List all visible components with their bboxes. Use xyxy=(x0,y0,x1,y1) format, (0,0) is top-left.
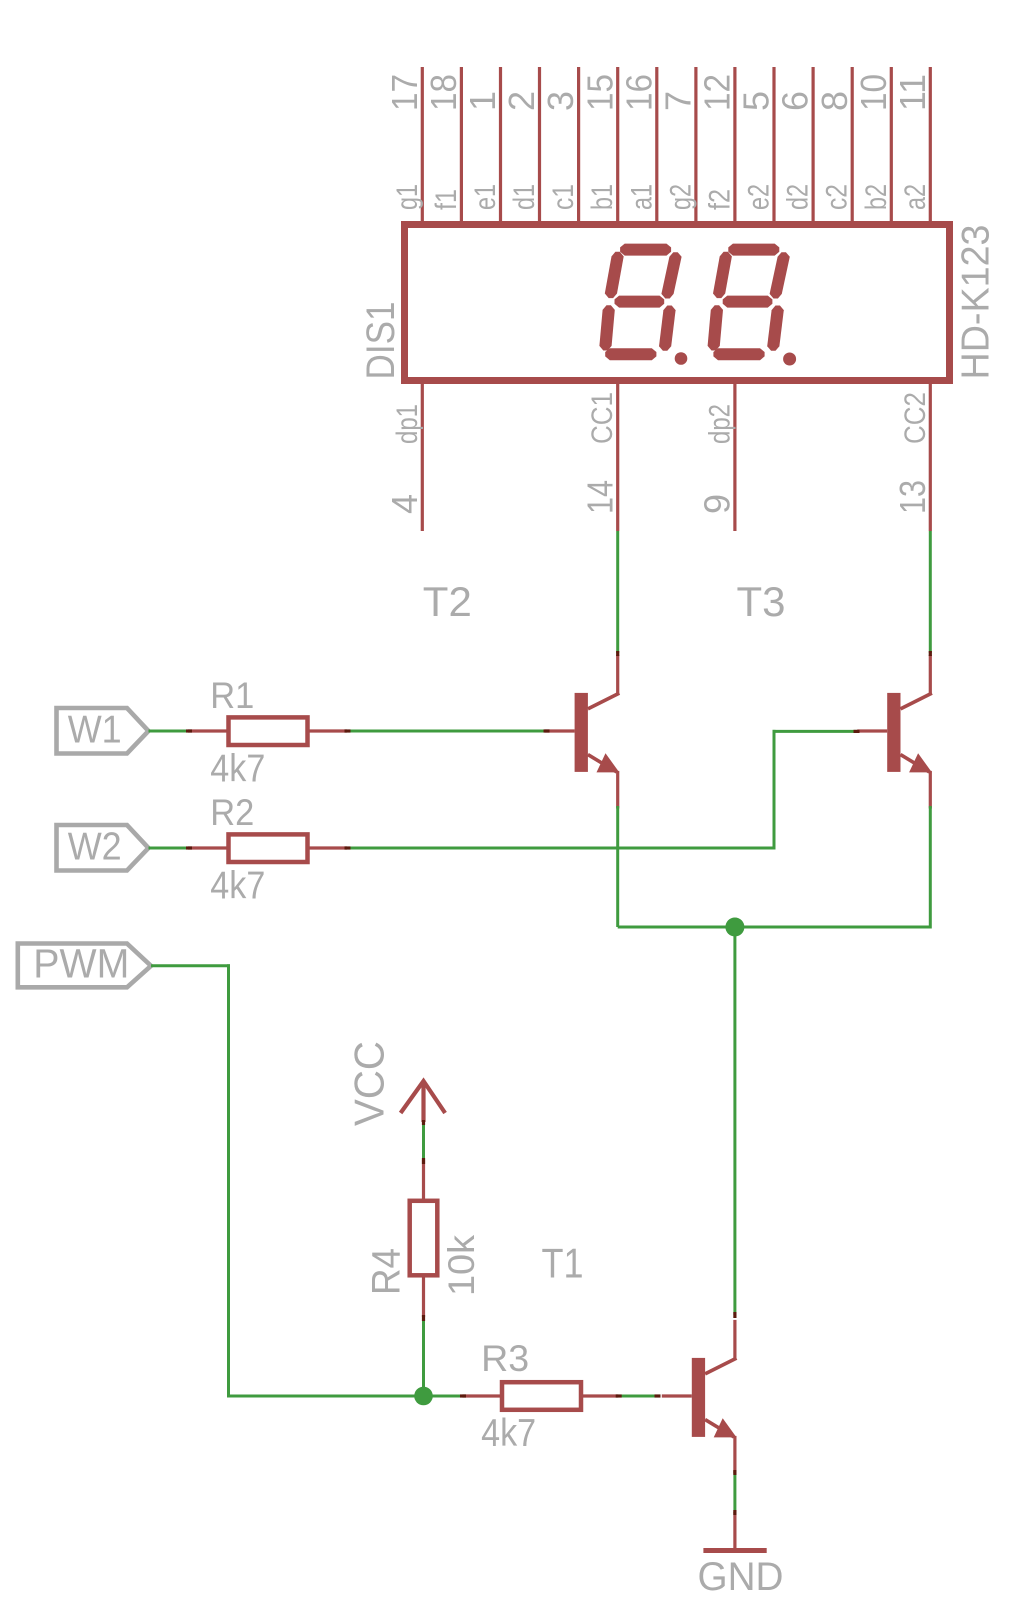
svg-text:T1: T1 xyxy=(542,1240,584,1287)
svg-text:16: 16 xyxy=(618,74,659,111)
svg-text:CC2: CC2 xyxy=(899,392,932,444)
display pin b1 wire xyxy=(616,67,619,226)
display pin dp1 wire xyxy=(421,382,424,531)
pin joint tick T1 base xyxy=(655,1394,661,1397)
svg-text:10k: 10k xyxy=(441,1234,482,1296)
svg-text:T3: T3 xyxy=(737,578,786,625)
svg-text:13: 13 xyxy=(892,480,933,514)
wire net CC2 vertical xyxy=(929,531,932,653)
7-segment digit 2 xyxy=(708,244,790,361)
svg-text:DIS1: DIS1 xyxy=(359,302,403,380)
svg-text:VCC: VCC xyxy=(345,1041,392,1126)
wire W2 to R2 xyxy=(149,847,191,850)
svg-text:8: 8 xyxy=(814,91,855,111)
svg-text:7: 7 xyxy=(658,91,699,111)
svg-text:W1: W1 xyxy=(68,709,122,752)
pin joint tick VCC stem xyxy=(422,1120,425,1125)
svg-text:HD-K123: HD-K123 xyxy=(955,225,998,380)
svg-text:f2: f2 xyxy=(703,189,736,210)
svg-text:4k7: 4k7 xyxy=(210,748,265,791)
decimal point dp2 xyxy=(783,353,796,366)
display pin dp2 wire xyxy=(733,382,736,531)
transistor T1 xyxy=(662,1320,737,1474)
svg-text:g2: g2 xyxy=(664,184,697,210)
net label flag PWM xyxy=(18,944,151,988)
wire W1 to R1 xyxy=(149,730,191,733)
svg-text:f1: f1 xyxy=(430,189,463,210)
wire T3 emitter down xyxy=(929,806,932,929)
svg-text:g1: g1 xyxy=(391,184,424,210)
wire junction down to T1 collector xyxy=(733,927,736,1315)
wire T1 emitter to GND xyxy=(733,1471,736,1513)
svg-text:5: 5 xyxy=(736,91,777,111)
wire corner up toward T3 base xyxy=(773,730,776,850)
wire PWM vertical xyxy=(227,964,230,1397)
display pin d1 wire xyxy=(538,67,541,226)
svg-text:e2: e2 xyxy=(743,184,776,210)
wire PWM horizontal to R3 xyxy=(229,1395,465,1398)
svg-text:R2: R2 xyxy=(210,791,254,833)
pin joint tick R1 right xyxy=(345,729,351,732)
pin joint tick T1 collector xyxy=(733,1312,736,1318)
wire PWM to corner xyxy=(151,964,230,967)
junction dot emitter bus xyxy=(725,918,744,937)
svg-text:c1: c1 xyxy=(547,184,580,210)
resistor R4 xyxy=(410,1160,438,1317)
pin joint tick GND net bottom xyxy=(733,1510,736,1515)
pin joint tick R4 top xyxy=(422,1158,425,1164)
svg-text:1: 1 xyxy=(462,91,503,111)
display pin e1 wire xyxy=(499,67,502,226)
display pin f2 wire xyxy=(733,67,736,226)
svg-text:dp1: dp1 xyxy=(391,404,424,444)
svg-text:R3: R3 xyxy=(481,1337,529,1379)
svg-text:d1: d1 xyxy=(508,184,541,210)
svg-text:6: 6 xyxy=(775,91,816,111)
svg-text:GND: GND xyxy=(698,1555,784,1599)
svg-text:b1: b1 xyxy=(586,184,619,210)
resistor R1 xyxy=(188,717,347,745)
wire R4 to base node xyxy=(422,1317,425,1396)
svg-text:10: 10 xyxy=(853,74,894,111)
display DIS1 body xyxy=(405,225,950,381)
svg-text:4k7: 4k7 xyxy=(210,865,265,908)
svg-text:a1: a1 xyxy=(625,184,658,210)
junction dot base node xyxy=(414,1387,433,1406)
svg-text:c2: c2 xyxy=(821,184,854,210)
svg-text:W2: W2 xyxy=(68,826,122,869)
pin joint tick GND net top xyxy=(733,1470,736,1475)
wire T2 emitter down xyxy=(616,806,619,927)
display pin c1 wire xyxy=(577,67,580,226)
svg-text:12: 12 xyxy=(697,74,738,111)
svg-text:11: 11 xyxy=(892,74,933,111)
svg-text:15: 15 xyxy=(579,74,620,111)
wire VCC to R4 xyxy=(422,1121,425,1161)
transistor T3 xyxy=(857,655,932,809)
7-segment digit 1 xyxy=(599,244,681,361)
svg-text:9: 9 xyxy=(697,494,738,514)
pin joint tick CC2 xyxy=(929,651,932,656)
display pin CC1 wire xyxy=(616,382,619,531)
display pin g1 wire xyxy=(421,67,424,226)
svg-text:e1: e1 xyxy=(469,184,502,210)
pin joint tick R3 left xyxy=(460,1394,466,1397)
display pin a1 wire xyxy=(655,67,658,226)
ground symbol GND xyxy=(703,1512,766,1551)
pin joint tick R2 right xyxy=(345,846,351,849)
pin joint tick W2-R2 xyxy=(186,846,192,849)
svg-text:dp2: dp2 xyxy=(703,404,736,444)
svg-text:4k7: 4k7 xyxy=(481,1412,536,1455)
pin joint tick T3 base xyxy=(854,730,860,733)
pin joint tick R3 right xyxy=(616,1394,622,1397)
wire to T3 base xyxy=(773,730,858,733)
svg-text:17: 17 xyxy=(384,74,425,111)
svg-text:14: 14 xyxy=(579,480,620,514)
svg-text:2: 2 xyxy=(501,91,542,111)
wire R2 rightwards xyxy=(347,847,774,850)
transistor T2 xyxy=(545,655,620,809)
wire emitter bus horizontal xyxy=(618,926,931,929)
svg-text:18: 18 xyxy=(423,74,464,111)
svg-text:3: 3 xyxy=(540,91,581,111)
svg-text:R4: R4 xyxy=(365,1248,409,1295)
pin joint tick R4 bottom xyxy=(422,1315,425,1321)
display pin e2 wire xyxy=(772,67,775,226)
display pin c2 wire xyxy=(851,67,854,226)
resistor R3 xyxy=(463,1382,619,1410)
pin joint tick CC1 xyxy=(616,651,619,656)
svg-text:d2: d2 xyxy=(782,184,815,210)
decimal point dp1 xyxy=(675,352,688,365)
net label flag W1 xyxy=(57,708,149,754)
pin joint tick W1-R1 xyxy=(186,729,192,732)
display pin d2 wire xyxy=(811,67,814,226)
resistor R2 xyxy=(188,834,347,862)
svg-text:T2: T2 xyxy=(423,578,472,625)
pin joint tick T2 base xyxy=(544,729,550,732)
display pin CC2 wire xyxy=(929,382,932,531)
wire R3 to T1 base xyxy=(618,1395,658,1398)
svg-text:CC1: CC1 xyxy=(586,392,619,444)
power symbol VCC xyxy=(401,1081,446,1122)
display pin g2 wire xyxy=(694,67,697,226)
wire net CC1 vertical xyxy=(616,531,619,653)
svg-text:R1: R1 xyxy=(210,674,254,716)
svg-text:4: 4 xyxy=(384,494,425,514)
wire R1 to T2 base xyxy=(347,730,547,733)
display pin b2 wire xyxy=(890,67,893,226)
svg-text:PWM: PWM xyxy=(33,940,129,986)
net label flag W2 xyxy=(57,825,149,871)
svg-text:b2: b2 xyxy=(860,184,893,210)
display pin f1 wire xyxy=(460,67,463,226)
display pin a2 wire xyxy=(929,67,932,226)
svg-text:a2: a2 xyxy=(899,184,932,210)
